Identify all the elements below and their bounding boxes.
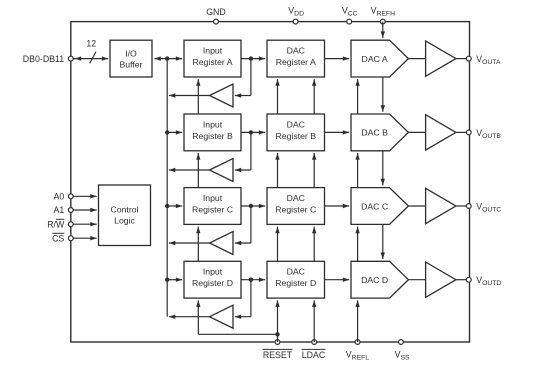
svg-text:DAC: DAC: [287, 119, 305, 129]
pin A1: [68, 208, 73, 213]
junction A: [249, 56, 253, 60]
wire readback out A: [169, 95, 210, 97]
wire DAC register C to DAC C: [325, 205, 350, 207]
RESET wire to input registers: [197, 300, 199, 334]
svg-text:CS: CS: [52, 233, 64, 243]
pin VOUTD: [466, 277, 471, 282]
wire DAC C to amplifier C: [408, 205, 425, 207]
svg-text:Input: Input: [203, 193, 223, 203]
DAC A: [351, 40, 408, 77]
wire readback tap A: [250, 59, 252, 96]
bus junction B: [165, 130, 169, 134]
wire readback out B: [169, 169, 210, 171]
readback buffer C: [210, 232, 234, 255]
input register A: [184, 40, 241, 77]
DAC register C: [267, 188, 325, 225]
wire DAC A to amplifier A: [408, 58, 425, 60]
svg-text:Buffer: Buffer: [119, 60, 142, 70]
pin VREFH: [380, 19, 385, 24]
svg-text:VREFH: VREFH: [371, 5, 395, 17]
wire input register B to DAC register B: [241, 131, 265, 133]
svg-text:VOUTA: VOUTA: [476, 54, 501, 66]
svg-text:GND: GND: [206, 7, 226, 17]
LDAC wire to DAC registers: [313, 300, 315, 342]
svg-text:I/O: I/O: [125, 48, 137, 58]
svg-text:Register C: Register C: [275, 204, 316, 214]
pin VDD: [293, 19, 298, 24]
DAC D: [351, 261, 408, 298]
wire DAC D to amplifier D: [408, 279, 425, 281]
svg-text:Register B: Register B: [275, 131, 316, 141]
svg-text:LDAC: LDAC: [302, 350, 326, 360]
RESET junction: [275, 332, 279, 336]
svg-text:VOUTD: VOUTD: [476, 275, 501, 287]
DAC register D: [267, 261, 325, 298]
wire DAC B to amplifier B: [408, 131, 425, 133]
wire input register D to DAC register D: [241, 279, 265, 281]
wire readback tap D: [250, 280, 252, 317]
wire bus to input register A: [154, 58, 182, 60]
VREFL wire to DACs: [357, 300, 359, 342]
wire amplifier A to VOUTA: [456, 58, 467, 60]
svg-text:Register C: Register C: [192, 204, 233, 214]
I/O buffer: [110, 40, 152, 77]
svg-text:12: 12: [86, 39, 96, 49]
pin R/W: [68, 222, 73, 227]
svg-text:DB0-DB11: DB0-DB11: [23, 54, 65, 64]
junction C: [249, 204, 253, 208]
wire readback tap B: [250, 132, 252, 170]
pin VCC: [347, 19, 352, 24]
svg-text:A1: A1: [54, 205, 65, 215]
pin VOUTC: [466, 204, 471, 209]
svg-text:Register A: Register A: [276, 57, 316, 67]
wire DAC register D to DAC D: [325, 279, 350, 281]
pin DB0-DB11: [68, 56, 73, 61]
wire CS to control logic: [73, 237, 97, 239]
svg-text:VDD: VDD: [288, 5, 304, 17]
pin GND: [214, 19, 219, 24]
output amplifier A: [426, 41, 456, 76]
output amplifier C: [426, 188, 456, 223]
svg-text:RESET: RESET: [263, 350, 293, 360]
readback buffer B: [210, 159, 234, 182]
wire readback out C: [169, 242, 210, 244]
readback buffer A: [210, 84, 234, 107]
readback buffer D: [210, 305, 234, 328]
junction D: [249, 278, 253, 282]
svg-text:DAC B: DAC B: [361, 128, 388, 138]
svg-text:VREFL: VREFL: [346, 350, 369, 362]
DAC B: [351, 114, 408, 151]
wire DAC register A to DAC A: [325, 58, 350, 60]
input register C: [184, 188, 241, 225]
svg-text:Register B: Register B: [192, 131, 233, 141]
wire A0 to control logic: [73, 195, 97, 197]
svg-text:Input: Input: [203, 267, 223, 277]
bus junction D: [165, 278, 169, 282]
chip outline: [71, 22, 470, 342]
internal data bus wire: [166, 59, 168, 317]
DAC register B: [267, 114, 325, 151]
DAC register A: [267, 40, 325, 77]
svg-text:DAC A: DAC A: [362, 54, 388, 64]
svg-text:Register A: Register A: [192, 57, 232, 67]
svg-text:VSS: VSS: [395, 350, 410, 362]
wire readback out D: [169, 316, 210, 318]
svg-text:VCC: VCC: [342, 5, 358, 17]
wire R/W to control logic: [73, 223, 97, 225]
svg-text:Input: Input: [203, 46, 223, 56]
svg-text:A0: A0: [54, 191, 65, 201]
pin A0: [68, 194, 73, 199]
data bus wire DB0-DB11 to I/O buffer: [73, 58, 108, 60]
bus junction A: [165, 56, 169, 60]
wire amplifier C to VOUTC: [456, 205, 467, 207]
wire amplifier B to VOUTB: [456, 131, 467, 133]
pin CS: [68, 236, 73, 241]
junction B: [249, 130, 253, 134]
wire A1 to control logic: [73, 209, 97, 211]
wire input register C to DAC register C: [241, 205, 265, 207]
output amplifier D: [426, 262, 456, 297]
control logic: [99, 185, 151, 246]
svg-text:DAC C: DAC C: [361, 201, 388, 211]
pin LDAC: [312, 340, 317, 345]
svg-text:DAC D: DAC D: [361, 275, 388, 285]
VREFH wire to DACs: [382, 22, 384, 38]
input register B: [184, 114, 241, 151]
svg-text:DAC: DAC: [287, 46, 305, 56]
svg-text:VOUTC: VOUTC: [476, 201, 501, 213]
pin VSS: [399, 340, 404, 345]
wire bus to input register C: [167, 205, 182, 207]
svg-text:Input: Input: [203, 119, 223, 129]
wire bus to input register D: [167, 279, 182, 281]
DAC C: [351, 188, 408, 225]
pin VOUTB: [466, 130, 471, 135]
output amplifier B: [426, 115, 456, 150]
input register D: [184, 261, 241, 298]
bus junction C: [165, 204, 169, 208]
wire bus to input register B: [167, 131, 182, 133]
wire readback tap C: [250, 206, 252, 243]
pin VREFL: [355, 340, 360, 345]
svg-text:Logic: Logic: [114, 215, 135, 225]
svg-text:DAC: DAC: [287, 193, 305, 203]
wire DAC register B to DAC B: [325, 131, 350, 133]
wire input register A to DAC register A: [241, 58, 265, 60]
svg-text:R/W: R/W: [47, 219, 65, 229]
wire amplifier D to VOUTD: [456, 279, 467, 281]
svg-text:Register D: Register D: [192, 278, 233, 288]
pin VOUTA: [466, 56, 471, 61]
svg-text:Register D: Register D: [275, 278, 316, 288]
svg-text:DAC: DAC: [287, 267, 305, 277]
RESET link wire: [198, 333, 277, 335]
bus width slash: [90, 52, 96, 64]
pin RESET: [275, 340, 280, 345]
RESET wire to DAC registers: [277, 300, 279, 342]
svg-text:VOUTB: VOUTB: [476, 128, 501, 140]
svg-text:Control: Control: [110, 204, 138, 214]
